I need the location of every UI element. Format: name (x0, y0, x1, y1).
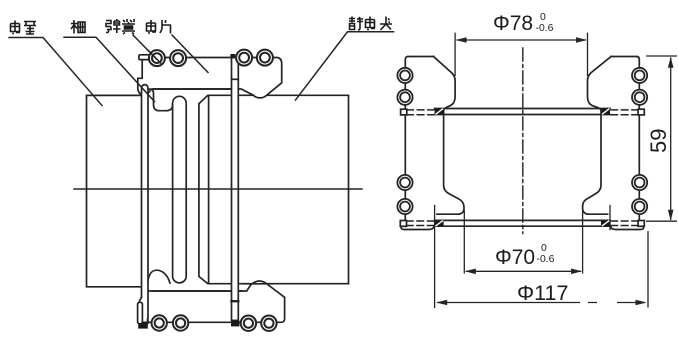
dim 59 bottom ext (646, 220, 677, 222)
arrowheads (436, 37, 673, 305)
left foot bottom (401, 226, 434, 229)
svg-text:Φ70: Φ70 (495, 246, 535, 269)
blade 2 black tip (231, 321, 239, 327)
blade 1 lower jog (139, 297, 141, 323)
outer left upright (405, 57, 408, 221)
top contact plate (435, 108, 610, 110)
dim 59 line (670, 58, 672, 221)
top left tab (139, 55, 149, 60)
contact arm rectangle (触臂) (87, 95, 142, 286)
section wedge marks (435, 109, 610, 227)
bottom-right tab (638, 221, 644, 227)
blade 1 black tip (138, 323, 148, 329)
leader 弹簧 over circle (148, 50, 161, 63)
leader line 触片 (172, 35, 208, 73)
dim Φ78 extension lines (454, 33, 456, 76)
dim Φ70 left ext (463, 210, 465, 274)
top contact block (触片 carrier) (138, 58, 282, 98)
leader line 弹簧 (133, 35, 157, 59)
leader line 静触头 (296, 32, 394, 100)
contact blade 1 (142, 85, 149, 324)
label 栅 (71, 20, 85, 34)
label 静触头 (349, 17, 392, 31)
svg-text:0: 0 (541, 243, 547, 254)
dim Φ70 right ext (582, 210, 584, 274)
long slot between fingers (173, 96, 187, 283)
spring rings right (632, 68, 647, 214)
right lower inner wall with finger tip (583, 115, 608, 215)
grid hanging piece (栅) top (148, 89, 173, 111)
svg-text:Φ78: Φ78 (493, 12, 533, 35)
bottom block top edge (154, 290, 242, 292)
top edge right (611, 56, 637, 58)
dim Φ117 line (437, 302, 645, 304)
bottom-left tab (400, 221, 406, 227)
grid hanging piece bottom (hump) (148, 270, 170, 284)
centerline of left view (74, 188, 362, 190)
top-left tab (401, 109, 407, 115)
blade 2 ticks (232, 78, 239, 80)
dim Φ70 line (466, 270, 581, 272)
spring rings left (397, 68, 412, 214)
dim Φ78 line (457, 39, 587, 41)
outer right upright (637, 57, 640, 221)
static contact inner edge (208, 95, 210, 283)
bottom contact plate (435, 219, 610, 221)
label 弹簧 (106, 19, 135, 34)
blade 1 bottom tab strip (138, 302, 143, 324)
spring rollers bottom (152, 315, 277, 331)
spring rollers top (弹簧) (149, 50, 273, 67)
top edge left (408, 56, 434, 58)
left lower inner wall with finger tip (437, 115, 464, 215)
top hidden dashes left (407, 110, 639, 226)
rect B bottom edge through dome (243, 283, 272, 285)
svg-text:0: 0 (540, 12, 546, 23)
svg-text:59: 59 (646, 129, 671, 153)
top block bottom edge (154, 88, 232, 90)
dim Φ117 right ext (647, 231, 649, 308)
static contact body (静触头) (199, 95, 349, 283)
svg-text:-0.6: -0.6 (536, 23, 554, 34)
leader line 触臂 (9, 38, 102, 106)
right chamfer and upper inner wall (588, 57, 612, 115)
vertical centerline dash-dot (522, 48, 524, 234)
contact blade 2 (232, 58, 239, 321)
right foot edge (609, 206, 611, 230)
blade 2 black top tab (230, 54, 235, 58)
dimension texts (493, 12, 671, 305)
svg-text:-0.6: -0.6 (537, 254, 555, 265)
right foot bottom (611, 226, 644, 229)
dim 59 top ext (646, 55, 677, 57)
top-right tab (638, 109, 644, 115)
svg-text:Φ117: Φ117 (517, 281, 568, 305)
bottom contact block (143, 281, 285, 322)
label 触片 (147, 20, 172, 34)
left foot outer edge / dim ext (434, 206, 436, 308)
label 触臂 (11, 21, 37, 35)
left chamfer and upper inner wall (434, 57, 456, 115)
leader line 栅 (64, 37, 155, 101)
